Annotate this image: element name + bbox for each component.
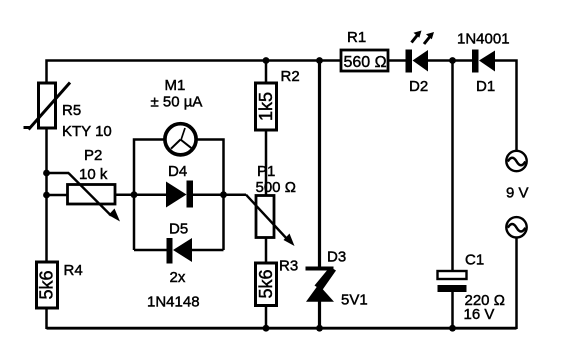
battery cell top (506, 151, 526, 171)
wire left rail mid (45, 128, 48, 262)
LED D2 light arrows (412, 31, 435, 45)
node P2 wiper tap (43, 170, 50, 177)
node bridge left (131, 191, 138, 198)
node R2 top (263, 57, 270, 64)
node R3 bottom (263, 325, 270, 332)
zener diode D3 (306, 267, 337, 302)
wire top rail left (47, 61, 342, 85)
resistor R1 (341, 50, 388, 71)
diode D1 (472, 50, 495, 73)
node C1 bottom (449, 325, 456, 332)
node D3 bottom (316, 325, 323, 332)
svg-text:1N4001: 1N4001 (457, 31, 510, 48)
svg-text:R4: R4 (64, 262, 83, 279)
svg-text:D5: D5 (169, 221, 188, 238)
wire bridge bottom right (192, 249, 224, 252)
svg-text:R3: R3 (279, 258, 298, 275)
svg-text:5V1: 5V1 (341, 292, 368, 309)
wire top rail to D3 (318, 61, 321, 268)
wire left rail bottom (45, 306, 48, 329)
svg-text:P1: P1 (257, 163, 275, 180)
battery cell bottom (506, 217, 526, 237)
svg-text:M1: M1 (165, 77, 186, 94)
node D2-D1 / C1 (449, 57, 456, 64)
svg-text:D4: D4 (168, 163, 187, 180)
junction node dots (43, 57, 456, 332)
node D3 top (316, 57, 323, 64)
wire meter to bridge right rail (197, 140, 224, 251)
svg-text:560 Ω: 560 Ω (344, 54, 387, 71)
capacitor C1 (438, 271, 467, 292)
svg-text:10 k: 10 k (79, 166, 108, 183)
wire P2 wiper tap (47, 172, 70, 175)
wire bottom rail (47, 327, 517, 330)
svg-text:2x: 2x (170, 269, 186, 286)
resistor R3 (256, 263, 277, 306)
svg-text:± 50 µA: ± 50 µA (151, 94, 203, 111)
diode D4 (166, 181, 193, 208)
wire P2 left terminal (47, 194, 69, 197)
wire D1 junction to C1 (451, 61, 454, 272)
svg-text:R5: R5 (62, 102, 81, 119)
wire C1 to bottom rail (451, 292, 454, 329)
wire D2 to D1 (428, 59, 473, 62)
svg-text:D3: D3 (327, 249, 346, 266)
diode D5 (167, 238, 193, 264)
svg-text:9 V: 9 V (506, 185, 529, 202)
svg-text:P2: P2 (84, 147, 102, 164)
wire D4 to P1 wiper (193, 193, 246, 196)
wire bridge bottom left (134, 249, 167, 252)
svg-text:D2: D2 (409, 78, 428, 95)
meter M1 (165, 124, 196, 155)
node P2 left (43, 192, 50, 199)
svg-text:D1: D1 (476, 78, 495, 95)
resistor R4 (37, 262, 58, 308)
svg-text:1N4148: 1N4148 (147, 294, 200, 311)
wire R2 to P1 (265, 130, 268, 196)
svg-text:KTY 10: KTY 10 (62, 123, 112, 140)
LED D2 (406, 50, 429, 73)
potentiometer P2 (68, 173, 121, 222)
wire bridge left rail to meter (134, 140, 165, 251)
wire top to R2 (265, 61, 268, 84)
svg-text:16 V: 16 V (464, 306, 495, 323)
svg-text:R2: R2 (281, 68, 300, 85)
svg-text:5k6: 5k6 (256, 269, 276, 298)
wire P1 to R3 (265, 238, 268, 264)
node bridge right (220, 191, 227, 198)
wire R3 to bottom rail (265, 306, 268, 330)
svg-text:R1: R1 (347, 29, 366, 46)
wire D3 to bottom rail (318, 301, 321, 329)
svg-text:5k6: 5k6 (37, 270, 57, 299)
potentiometer P1 (246, 195, 295, 246)
wire D1 to right rail down to battery (495, 61, 517, 152)
resistor R5 KTY10 (24, 83, 71, 130)
wire battery to bottom rail (515, 238, 518, 329)
svg-text:C1: C1 (465, 252, 484, 269)
wire R1 to D2 (388, 59, 406, 62)
svg-text:1k5: 1k5 (256, 92, 276, 121)
wire P2 to D4 (114, 193, 167, 196)
resistor R2 (256, 83, 277, 130)
svg-text:500 Ω: 500 Ω (256, 179, 296, 196)
